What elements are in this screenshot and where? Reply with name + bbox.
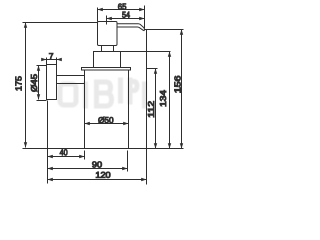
- wall plate: [47, 65, 57, 100]
- extension line 112 top: [147, 68, 158, 70]
- svg-text:40: 40: [60, 147, 68, 157]
- svg-text:134: 134: [158, 90, 168, 107]
- body lip: [82, 68, 131, 71]
- extension line 54 left: [106, 16, 108, 25]
- extension line plate bottom left (d45): [37, 100, 47, 102]
- dimension d50: [85, 122, 129, 125]
- extension line 134 top: [121, 51, 171, 53]
- svg-text:112: 112: [146, 101, 156, 118]
- extension line 40 right: [84, 151, 86, 160]
- dimension 156: [180, 30, 183, 149]
- svg-text:Ø45: Ø45: [29, 74, 39, 92]
- svg-text:7: 7: [49, 51, 54, 61]
- dimension 175: [24, 23, 27, 148]
- dimension 7: [41, 58, 62, 65]
- bottle body: [85, 70, 129, 149]
- dimension 120: [48, 178, 147, 181]
- extension line 156 top: [145, 29, 184, 31]
- svg-text:90: 90: [92, 159, 102, 169]
- extension line 90 right: [127, 151, 129, 172]
- dimension d45: [37, 66, 40, 100]
- extension line pump left (65): [97, 8, 99, 22]
- extension line top (175): [23, 22, 98, 24]
- svg-text:54: 54: [122, 10, 130, 20]
- baseline: [23, 148, 184, 150]
- dimension 65: [98, 8, 145, 11]
- dimension 90: [48, 167, 128, 170]
- extension line spout tip vertical: [145, 6, 147, 185]
- svg-text:156: 156: [173, 75, 183, 93]
- svg-text:Ø50: Ø50: [98, 115, 114, 125]
- collar: [94, 52, 121, 68]
- dimension 134: [168, 52, 171, 149]
- extension line plate top left (d45): [37, 65, 47, 67]
- extension line wall left vertical: [47, 101, 49, 184]
- pump spout: [117, 24, 144, 31]
- dimension 112: [154, 69, 157, 149]
- dimension 40: [48, 155, 85, 158]
- pump neck: [102, 46, 114, 52]
- watermark logo: [60, 80, 145, 106]
- pump head: [98, 22, 118, 46]
- mounting arm: [57, 76, 85, 84]
- dimension 54: [107, 17, 145, 20]
- svg-text:175: 175: [14, 76, 24, 91]
- svg-text:120: 120: [95, 170, 111, 180]
